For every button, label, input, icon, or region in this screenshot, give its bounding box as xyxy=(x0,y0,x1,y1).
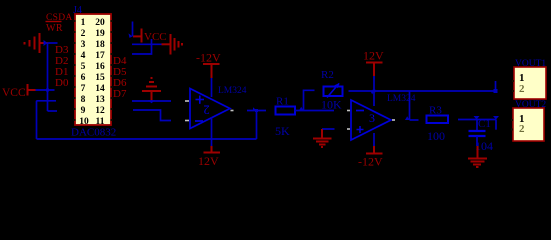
wire pin13 to op-amp1 + input xyxy=(132,100,171,102)
svg-text:VCC: VCC xyxy=(144,31,167,43)
svg-text:19: 19 xyxy=(95,29,105,39)
svg-text:3: 3 xyxy=(81,40,86,50)
svg-text:15: 15 xyxy=(95,73,105,83)
svg-text:20: 20 xyxy=(95,18,105,28)
chip pin nubs xyxy=(74,20,113,121)
wire VOUT1 pin1 riser xyxy=(495,81,497,91)
VOUT2 pin nubs xyxy=(511,119,513,121)
junction at analog ground on op-amp1 + wire xyxy=(148,100,155,103)
svg-text:-12V: -12V xyxy=(196,51,221,65)
svg-text:R3: R3 xyxy=(429,105,442,117)
op-amp1 minus sign xyxy=(195,120,203,122)
op-amp2 minus sign xyxy=(356,110,364,112)
svg-text:17: 17 xyxy=(95,51,105,61)
wire R3 to output node xyxy=(458,119,496,121)
resistor R1 xyxy=(276,107,296,115)
R2 wiper arrow xyxy=(327,84,339,98)
svg-text:100: 100 xyxy=(427,129,445,143)
svg-text:D7: D7 xyxy=(113,88,127,100)
svg-text:LM324: LM324 xyxy=(387,94,416,104)
svg-text:12: 12 xyxy=(95,106,105,116)
wire pin18 to ground xyxy=(132,43,162,45)
wire pin12 to op-amp1 - input xyxy=(133,110,171,121)
svg-text:16: 16 xyxy=(95,62,105,72)
op-amp U1B triangle xyxy=(351,100,391,140)
svg-text:4: 4 xyxy=(81,51,86,61)
capacitor C1 xyxy=(476,120,478,132)
svg-text:12V: 12V xyxy=(198,154,219,168)
op-amp1 power stubs xyxy=(211,78,213,97)
op-amp1 plus sign xyxy=(196,96,205,104)
junction at +12V stub crossing xyxy=(370,91,374,94)
ground right of VCC top xyxy=(162,34,183,55)
VOUT1 pin nubs xyxy=(512,80,514,82)
pin numbers left column 1-10 xyxy=(79,18,89,127)
svg-text:5K: 5K xyxy=(275,124,290,138)
svg-text:5: 5 xyxy=(81,62,86,72)
svg-text:2: 2 xyxy=(81,29,86,39)
junction at VCC / pin7 wire xyxy=(46,89,49,92)
pin numbers right column 20-11 xyxy=(95,18,105,127)
wire vertical left net xyxy=(47,43,49,111)
node wire R1 right to R2/op2 xyxy=(295,110,335,112)
bus bottom feedback wire xyxy=(37,138,257,140)
svg-text:12V: 12V xyxy=(363,49,384,63)
junction at VOUT2 node xyxy=(493,116,499,120)
svg-text:J4: J4 xyxy=(73,5,82,16)
svg-text:3: 3 xyxy=(369,111,375,125)
wire vertical down to bus xyxy=(36,101,38,139)
connector VOUT1 xyxy=(514,67,546,99)
svg-text:6: 6 xyxy=(81,73,86,83)
wire pin9 stub xyxy=(48,110,58,112)
svg-text:DAC0832: DAC0832 xyxy=(71,127,116,139)
junction at op-amp2 output / R2 feedback node xyxy=(405,116,410,120)
wire pin8 branch xyxy=(36,100,56,102)
junction at pin20 VCC corner xyxy=(129,33,133,38)
wire feedback vertical xyxy=(256,111,258,140)
svg-text:2: 2 xyxy=(519,83,525,95)
resistor R3 xyxy=(427,116,449,124)
connector J4 DAC0832 body xyxy=(75,14,111,125)
svg-text:10K: 10K xyxy=(321,98,342,112)
svg-text:13: 13 xyxy=(95,95,105,105)
op-amp U1A triangle xyxy=(190,89,230,129)
svg-text:WR: WR xyxy=(46,23,63,34)
svg-text:7: 7 xyxy=(81,84,86,94)
junction at C1 node xyxy=(474,116,480,120)
svg-text:18: 18 xyxy=(95,40,105,50)
junction tick above ground wire xyxy=(151,39,153,44)
op-amp2 power stubs xyxy=(373,76,375,106)
junction at ground / pin3 node xyxy=(44,40,48,46)
svg-text:-12V: -12V xyxy=(358,155,383,169)
svg-text:LM324: LM324 xyxy=(218,86,247,96)
svg-text:VOUT1: VOUT1 xyxy=(515,59,546,69)
op-amp2 plus sign xyxy=(357,126,364,133)
wire pin3 to ground xyxy=(48,42,58,44)
svg-text:VOUT2: VOUT2 xyxy=(515,100,546,110)
svg-text:R2: R2 xyxy=(321,69,334,81)
wire VCC to vertical xyxy=(36,89,55,91)
svg-text:C1: C1 xyxy=(478,118,491,130)
junction at op-amp1 output feedback node xyxy=(253,107,257,110)
wire pin17 jog to ground net xyxy=(132,44,152,54)
wire op-amp2 output to R3 xyxy=(410,119,419,121)
svg-text:2: 2 xyxy=(203,103,209,117)
ground pointing up at op-amp1 + input wire xyxy=(142,78,161,101)
connector VOUT2 xyxy=(513,108,544,141)
op-amp1 white pin ticks xyxy=(185,101,234,121)
long wire R2 right to VOUT1 xyxy=(349,90,496,92)
svg-text:1: 1 xyxy=(81,18,86,28)
ground below C1 xyxy=(468,146,487,167)
junction at R1/R2 node A xyxy=(299,107,304,111)
potentiometer R2 xyxy=(324,87,343,97)
svg-text:11: 11 xyxy=(96,117,105,127)
junction at VOUT1 node xyxy=(494,89,498,93)
svg-text:D0: D0 xyxy=(55,77,69,89)
WR overline xyxy=(46,21,62,23)
op-amp2 white pin ticks xyxy=(347,111,395,130)
svg-text:10: 10 xyxy=(79,117,89,127)
svg-text:9: 9 xyxy=(81,106,86,116)
svg-text:R1: R1 xyxy=(276,96,289,108)
feedback wire from R2 top down to output xyxy=(409,91,411,120)
svg-text:8: 8 xyxy=(81,95,86,105)
svg-text:14: 14 xyxy=(95,84,105,94)
wire VOUT2 pin2 dropper xyxy=(495,120,497,130)
wire op-amp1 output xyxy=(247,110,266,112)
svg-text:VCC: VCC xyxy=(2,87,26,99)
wire pin20 to VCC port xyxy=(132,22,134,37)
svg-text:2: 2 xyxy=(519,123,525,135)
ground left of chip xyxy=(25,33,48,53)
wire up to R2 left xyxy=(304,90,315,110)
ground below op-amp2 + input xyxy=(313,129,332,147)
op-amp2 + input wire to ground xyxy=(322,128,335,130)
